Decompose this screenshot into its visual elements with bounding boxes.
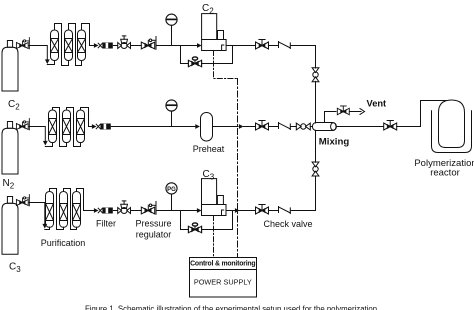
monitor line C3 (dash-dot) bbox=[213, 216, 215, 258]
gauge stem bbox=[171, 111, 173, 126]
wire: riser to mixing bbox=[291, 176, 316, 211]
arrow after monitor crossing (bottom row) bbox=[235, 208, 240, 213]
control box bbox=[190, 258, 257, 298]
purification column 2 (top row) bbox=[65, 30, 73, 61]
pressure gauge PG (bottom row) bbox=[166, 183, 177, 194]
arrow on middle line after monitor crossing bbox=[239, 124, 244, 129]
bypass loop C2 bbox=[181, 46, 233, 64]
wire bbox=[268, 210, 278, 212]
wire: bottom jog to column 1 bbox=[45, 143, 52, 147]
polymerization reactor inner vessel bbox=[439, 100, 465, 148]
pressure gauge (middle row) bbox=[166, 100, 177, 111]
svg-text:Control & monitoring: Control & monitoring bbox=[190, 261, 255, 268]
compressor C2 bbox=[202, 14, 227, 51]
wire: col3 top to main line bbox=[81, 108, 95, 127]
svg-text:C3: C3 bbox=[203, 169, 215, 182]
bypass valve C3 bbox=[188, 223, 201, 233]
control box divider bbox=[190, 269, 257, 271]
vent line bbox=[325, 112, 362, 123]
svg-text:PG: PG bbox=[167, 187, 176, 193]
gauge stem bbox=[171, 194, 173, 211]
svg-text:N2: N2 bbox=[3, 178, 15, 191]
arrow into filter bbox=[94, 208, 99, 213]
wire: C3 feed to purification bbox=[29, 203, 45, 227]
wire bbox=[291, 126, 296, 128]
three-way valve (top row) bbox=[118, 36, 131, 49]
arrow into compressor C3 bbox=[197, 208, 202, 213]
wire: col3 top to main line bbox=[82, 24, 97, 46]
bypass valve C2 bbox=[188, 57, 201, 67]
monitor trunk line (dashed) bbox=[237, 79, 239, 258]
purification column 3 (bottom row) bbox=[73, 192, 81, 228]
pressure gauge (top row) bbox=[166, 14, 177, 25]
wire: col1 top to col2 bottom bbox=[53, 108, 67, 147]
wire: col2 top to col3 bottom bbox=[69, 24, 82, 66]
purification column 1 (bottom row) bbox=[46, 192, 54, 228]
product valve bbox=[384, 121, 397, 131]
wire bbox=[113, 45, 117, 47]
purification column 3 (top row) bbox=[78, 30, 86, 61]
pressure regulator (bottom row) bbox=[141, 202, 156, 215]
gas cylinder C3 bbox=[2, 197, 18, 255]
wire: col2 top to col3 bottom bbox=[64, 189, 77, 230]
wire: to reactor bbox=[397, 101, 447, 127]
preheater vessel bbox=[201, 113, 213, 142]
regulator valve on C2 cylinder bbox=[16, 38, 29, 49]
monitor line C2 (dash-dot) bbox=[214, 51, 238, 79]
wire bbox=[131, 210, 142, 212]
svg-text:regulator: regulator bbox=[136, 230, 172, 240]
wire: bottom jog to column 1 bbox=[45, 227, 50, 229]
wire: col2 top to col3 bottom bbox=[67, 108, 81, 147]
regulator valve on C3 cylinder bbox=[16, 195, 29, 206]
purification column 1 (top row) bbox=[51, 30, 59, 61]
compressor C3 bbox=[202, 179, 227, 216]
wire bbox=[268, 126, 278, 128]
svg-text:Filter: Filter bbox=[96, 219, 116, 229]
mixing vessel bbox=[312, 123, 336, 131]
shutoff valve (bottom row outlet) bbox=[256, 205, 269, 215]
svg-text:Check valve: Check valve bbox=[264, 219, 313, 229]
wire bbox=[113, 210, 117, 212]
arrow down into column inlet bbox=[43, 141, 48, 146]
purification column 2 (bottom row) bbox=[60, 192, 68, 228]
wire: mixing outlet bbox=[336, 126, 384, 128]
svg-text:Pressure: Pressure bbox=[135, 219, 171, 229]
svg-text:C2: C2 bbox=[202, 3, 214, 16]
wire: C3 outlet bbox=[226, 210, 256, 212]
wire: up to mixing bbox=[315, 130, 317, 162]
svg-text:Preheat: Preheat bbox=[193, 144, 225, 154]
wire: col1 top to col2 bottom bbox=[55, 24, 69, 66]
arrow down into column inlet bbox=[45, 59, 50, 64]
filter (top row) bbox=[98, 43, 113, 49]
gas cylinder N2 bbox=[2, 122, 18, 175]
arrow into compressor C2 bbox=[197, 43, 202, 48]
wire: to downcomer corner bbox=[291, 46, 316, 69]
svg-text:C3: C3 bbox=[9, 262, 21, 275]
arrow into preheater bbox=[195, 124, 200, 129]
wire: preheat outlet bbox=[213, 126, 238, 128]
wire: col1 top to col2 bottom bbox=[50, 189, 64, 230]
vent arrow bbox=[360, 109, 365, 115]
filter (bottom row) bbox=[98, 208, 113, 214]
purification column 1 (middle row) bbox=[49, 110, 57, 143]
pressure regulator (top row) bbox=[141, 37, 156, 50]
shutoff valve (top row outlet) bbox=[256, 40, 269, 50]
filter (middle row) bbox=[96, 124, 111, 130]
wire: long run to preheater bbox=[111, 126, 195, 128]
wire into mixing bbox=[310, 126, 312, 128]
wire: bottom jog to column 1 bbox=[47, 61, 54, 65]
vertical ball valve (C3 line to mixing) bbox=[312, 162, 319, 176]
polymerization reactor jacket bbox=[432, 111, 472, 153]
wire bbox=[268, 45, 278, 47]
wire: C2 feed to purification bbox=[29, 46, 47, 63]
arrow down into column inlet bbox=[42, 224, 47, 229]
gas cylinder C2 bbox=[2, 41, 18, 92]
wire to compressor bbox=[156, 210, 199, 212]
three-way valve (bottom row) bbox=[118, 201, 131, 214]
check valve (bottom row) bbox=[279, 207, 291, 214]
arrow into filter bbox=[94, 43, 99, 48]
check symbol (top row) bbox=[279, 42, 291, 49]
svg-text:reactor: reactor bbox=[430, 168, 460, 179]
svg-text:Vent: Vent bbox=[367, 99, 387, 109]
wire: col3 top to main line bbox=[77, 189, 97, 211]
gauge stem bbox=[171, 25, 173, 45]
wire bbox=[244, 126, 256, 128]
check symbol (middle row) bbox=[279, 123, 291, 130]
svg-text:Purification: Purification bbox=[41, 238, 86, 248]
svg-text:POWER SUPPLY: POWER SUPPLY bbox=[194, 278, 252, 287]
vertical ball valve (C2 line to mixing) bbox=[312, 68, 319, 82]
vent valve bbox=[337, 106, 349, 115]
wire to compressor bbox=[156, 45, 199, 47]
mixing vessel right cap bbox=[331, 123, 336, 131]
wire: down to mixing bbox=[315, 81, 317, 123]
svg-text:Mixing: Mixing bbox=[319, 137, 350, 148]
arrow into filter bbox=[92, 124, 97, 129]
svg-text:Figure 1. Schematic illustrati: Figure 1. Schematic illustration of the … bbox=[85, 305, 377, 310]
wire: C2 outlet bbox=[226, 45, 256, 47]
regulator valve on N2 cylinder bbox=[16, 119, 29, 130]
ball valve (middle row, before mixing) bbox=[296, 123, 310, 130]
purification column 2 (middle row) bbox=[63, 110, 71, 143]
bypass loop C3 bbox=[181, 211, 233, 230]
purification column 3 (middle row) bbox=[77, 110, 85, 143]
wire bbox=[131, 45, 142, 47]
svg-text:C2: C2 bbox=[8, 99, 20, 112]
shutoff valve (middle row) bbox=[256, 121, 269, 131]
wire: N2 feed to purification bbox=[29, 127, 45, 144]
